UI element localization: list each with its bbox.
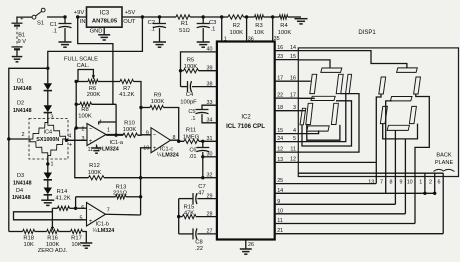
svg-text:IC3: IC3 [100, 11, 110, 17]
svg-text:5: 5 [293, 136, 296, 142]
junction dot pin31 node [201, 140, 204, 143]
wire C3 node to pin1 stub [203, 16, 222, 18]
svg-text:1MEG: 1MEG [183, 135, 200, 141]
junction dot IC1-c output [177, 140, 180, 143]
wire IC2 pin 18 to display pin 3 [275, 105, 299, 111]
svg-text:.22: .22 [195, 246, 203, 252]
svg-text:200K: 200K [87, 92, 101, 98]
wire common down [202, 157, 204, 178]
svg-text:R1: R1 [181, 21, 188, 27]
wire +9V branch down [78, 17, 113, 104]
wire IC2 pin 9 to display bottom [275, 199, 396, 205]
svg-text:7: 7 [107, 207, 110, 213]
svg-text:38: 38 [207, 81, 213, 87]
junction dot common mid [139, 176, 142, 179]
resistor R1 51ohm [176, 15, 203, 34]
junction dot backplane 1 [423, 192, 426, 195]
junction dot pin 1 stub [220, 15, 223, 18]
svg-text:.1: .1 [150, 27, 155, 33]
display DISP1 box [298, 30, 458, 177]
bridge sensor IC4 SX1000N dashed box [29, 119, 68, 160]
wire pin 40 to osc node [181, 47, 217, 71]
svg-text:−: − [88, 208, 92, 214]
svg-text:100K: 100K [78, 114, 92, 120]
svg-text:22: 22 [277, 93, 283, 99]
wire battery to switch [17, 16, 32, 19]
svg-text:8: 8 [390, 179, 393, 185]
svg-text:30: 30 [207, 152, 213, 158]
svg-text:C2: C2 [148, 20, 155, 26]
capacitor C6 .01 [189, 141, 210, 160]
svg-text:C6: C6 [189, 148, 196, 154]
svg-text:4: 4 [68, 133, 71, 139]
display bottom pin 10 riser [407, 177, 415, 224]
wire to left rail [9, 68, 48, 137]
resistor R11 1MEG [183, 128, 200, 144]
wire R6/R8 vertical [75, 82, 77, 105]
svg-text:1N4148: 1N4148 [13, 180, 32, 186]
display bottom pin 9 riser [400, 177, 406, 214]
svg-text:C7: C7 [198, 184, 205, 190]
svg-text:C4: C4 [186, 92, 194, 98]
wire IC2 pin 35 stub [273, 17, 280, 42]
resistor R8 100K [76, 102, 92, 119]
wire IC2 pin 1 stub [222, 17, 227, 43]
junction dot pin30 node [201, 155, 204, 158]
wire pin6 [76, 207, 87, 209]
svg-text:14: 14 [290, 45, 296, 51]
svg-text:DISP1: DISP1 [358, 30, 376, 36]
svg-text:40: 40 [207, 47, 213, 53]
display bottom pin 7 riser [380, 177, 386, 194]
svg-text:10: 10 [277, 208, 283, 214]
capacitor C5 .1 [188, 109, 208, 122]
svg-text:47K: 47K [184, 210, 194, 216]
svg-text:C3: C3 [209, 20, 216, 26]
svg-text:AN78L05: AN78L05 [92, 19, 118, 25]
svg-text:.1: .1 [52, 29, 57, 35]
svg-text:D4: D4 [16, 188, 23, 194]
left rail wire [8, 139, 10, 232]
svg-text:15: 15 [290, 54, 296, 60]
junction dot backplane 2 [433, 192, 436, 195]
wire R9 right down to IC1-c output [164, 108, 179, 142]
wire IC2 pin 25 to display bottom [275, 178, 376, 184]
junction dot sensor feed [46, 67, 49, 70]
display left digit segment G [311, 96, 335, 100]
svg-text:R11: R11 [186, 128, 196, 134]
op-amp IC1-b [80, 203, 115, 235]
display wire right G to bottom [386, 101, 392, 177]
display wire entry 12 bus [298, 161, 376, 163]
integrator node vertical [178, 199, 180, 234]
svg-text:B1: B1 [18, 32, 25, 38]
capacitor C8 .22 [179, 228, 217, 252]
IC1-a pin 4 power stub [99, 122, 116, 125]
svg-text:GND: GND [90, 29, 103, 35]
junction dot C3 [202, 15, 205, 18]
junction dot pin 36 stub [245, 15, 248, 18]
display half-digit segment c [300, 108, 306, 125]
svg-text:ICL 7106 CPL: ICL 7106 CPL [226, 123, 265, 130]
wire to R2 [222, 16, 228, 18]
svg-text:1: 1 [107, 128, 110, 134]
label full scale cal [64, 57, 98, 70]
wire bridge pin4 to IC1-a pin3 [66, 139, 87, 140]
svg-text:R6: R6 [89, 86, 96, 92]
svg-text:R18: R18 [23, 236, 34, 242]
wire pin 30 [203, 156, 217, 158]
svg-text:R4: R4 [280, 23, 288, 29]
op-amp IC1-c [143, 128, 178, 159]
svg-text:C8: C8 [195, 239, 202, 245]
diode D1 1N4148 [13, 68, 52, 92]
svg-text:12: 12 [277, 147, 283, 153]
svg-text:IC1-b: IC1-b [96, 221, 109, 227]
display right digit segment A [397, 68, 418, 73]
wire IC1-b output feedback [106, 213, 141, 216]
pin 32 label [207, 173, 213, 179]
display wire loop riser pin 9 [404, 139, 406, 177]
svg-text:D3: D3 [17, 173, 24, 179]
resistor R9 100K [141, 93, 164, 110]
display right digit segment B [414, 77, 421, 94]
svg-text:+: + [89, 219, 93, 225]
wire D3 to D4 [47, 180, 49, 188]
IC2 ICL7106 box [217, 42, 275, 240]
svg-text:100K: 100K [151, 99, 165, 105]
svg-text:R12: R12 [89, 163, 100, 169]
display bottom pin 13 riser [368, 177, 376, 186]
diode D3 1N4148 [13, 173, 52, 187]
junction dot IC1-a output [114, 133, 117, 136]
svg-text:9: 9 [277, 199, 280, 205]
vertical net IC1-c pin10 [141, 148, 151, 215]
capacitor C7 .47 [179, 184, 217, 204]
svg-text:100K: 100K [230, 30, 244, 36]
display backplane electrode line [298, 172, 443, 174]
ground for IC1-a pin 11 [92, 148, 102, 153]
svg-text:+5V: +5V [125, 10, 136, 16]
svg-text:9 V: 9 V [18, 39, 27, 45]
svg-text:+9V: +9V [74, 10, 85, 16]
ground for IC3 [98, 35, 110, 40]
resistor R4 100K [273, 15, 292, 36]
svg-text:R7: R7 [123, 86, 130, 92]
wire left rail to R18 [9, 231, 23, 233]
svg-text:1N4148: 1N4148 [13, 108, 32, 114]
wire IC2 pin 22 to display pin 17 [275, 92, 299, 98]
display wire right F bus [376, 94, 381, 177]
potentiometer R6 200K wiper wire [78, 70, 95, 82]
capacitor C4 100pF [180, 81, 217, 105]
svg-text:15: 15 [277, 128, 283, 134]
svg-text:.1: .1 [191, 116, 196, 122]
svg-text:28: 28 [207, 211, 213, 217]
wire R10 to IC1-c pin 9 [138, 134, 152, 136]
svg-text:23: 23 [277, 54, 283, 60]
wire IC2 pin 11 to display bottom [275, 218, 415, 224]
wire R1 to C3 node [166, 16, 176, 18]
svg-text:R15: R15 [184, 204, 195, 210]
svg-text:PLANE: PLANE [435, 160, 454, 166]
resistor R14 41.2K [52, 189, 75, 211]
ground for C2 [153, 42, 166, 47]
display right digit segment G [390, 97, 412, 101]
display wire entry 3 to left digit E [298, 110, 305, 112]
svg-text:LM324: LM324 [98, 228, 115, 234]
resistor R13 221ohm [76, 184, 141, 199]
display left digit segment D [307, 126, 329, 131]
svg-text:R2: R2 [233, 23, 240, 29]
pin 31 label [207, 136, 213, 142]
svg-text:IN: IN [80, 19, 86, 25]
svg-text:33: 33 [207, 100, 213, 106]
svg-text:1: 1 [51, 161, 54, 167]
junction dot C2 [158, 15, 161, 18]
wire switch to +9V node [47, 16, 65, 18]
svg-text:34: 34 [207, 118, 213, 124]
capacitor C1 .1 [50, 17, 72, 42]
svg-text:CAL.: CAL. [77, 63, 90, 69]
capacitor C3 .1 [197, 17, 217, 42]
svg-text:27: 27 [207, 229, 213, 235]
wire pin 32 [203, 177, 217, 179]
svg-text:9: 9 [146, 130, 149, 136]
svg-text:S1: S1 [37, 21, 44, 27]
svg-text:100K: 100K [88, 170, 102, 176]
wire IC2 pin 13 to display pin 12 [275, 157, 299, 163]
diode D2 1N4148 [13, 101, 52, 114]
ground for C1 [59, 42, 72, 47]
ground for C3 [197, 42, 210, 47]
junction dot R8 left [75, 103, 78, 106]
battery B1 9V [12, 16, 27, 57]
wire R4 to ground [288, 16, 301, 18]
wire R8 right to +9V vertical [92, 103, 117, 105]
display right digit segment D [387, 125, 409, 130]
svg-text:LM324: LM324 [162, 152, 179, 158]
svg-text:SX1000N: SX1000N [36, 137, 59, 143]
display left digit segment C [331, 103, 338, 124]
display backplane pin 2 riser [429, 173, 435, 193]
svg-text:6: 6 [438, 179, 441, 185]
wire D4 to ground [47, 195, 49, 200]
svg-text:100K: 100K [278, 30, 292, 36]
svg-text:17: 17 [277, 76, 283, 82]
wire IC2 pin 12 to display pin 11 [275, 146, 299, 152]
label BACK PLANE [434, 153, 455, 172]
display wire entry 15 to left digit A [298, 60, 330, 68]
svg-text:−: − [153, 132, 157, 138]
junction dot pin2 node [75, 126, 78, 129]
wire R13 left down to pin6 [75, 197, 77, 209]
svg-text:.01: .01 [189, 154, 197, 160]
svg-text:16: 16 [290, 75, 296, 81]
svg-text:C1: C1 [50, 22, 57, 28]
junction dot osc node [179, 69, 182, 72]
display wire right E C loop [383, 124, 418, 139]
junction dot +9V branch [76, 15, 79, 18]
svg-text:18: 18 [277, 105, 283, 111]
wire D2 to bridge pin 3 [48, 113, 54, 123]
display left digit segment A [321, 68, 342, 72]
display wire half-digit c loop [302, 101, 352, 146]
resistor R17 10K [71, 229, 83, 248]
wire IC2 pin 10 to display bottom [275, 208, 406, 214]
wire R16 to R17 [59, 231, 71, 233]
wire IC1-c output to R11 [171, 140, 185, 141]
wire R7 to R9 node [134, 82, 142, 108]
svg-text:25: 25 [277, 178, 283, 184]
wire bridge pin1 down [47, 156, 49, 173]
svg-text:ZERO ADJ.: ZERO ADJ. [38, 248, 68, 254]
wire R6 right to +9V vertical [98, 81, 113, 83]
svg-text:9: 9 [400, 179, 403, 185]
IC1-a pin 11 ground stub [96, 145, 98, 148]
bridge labels [22, 130, 73, 168]
bridge arm bottom-right [48, 139, 66, 156]
wire R8 node down to IC1-a pin2 [76, 104, 87, 128]
wire C5 to pin 34 [202, 114, 217, 124]
svg-text:11: 11 [290, 146, 296, 152]
svg-text:−: − [89, 127, 93, 133]
potentiometer R16 100K ZERO ADJ [38, 227, 68, 254]
IC3 GND pin [90, 27, 105, 34]
svg-text:10: 10 [407, 179, 413, 185]
junction dot R13 right [139, 195, 142, 198]
svg-text:10K: 10K [254, 30, 264, 36]
svg-text:+: + [69, 143, 73, 149]
junction dot pin32 node [201, 176, 204, 179]
IC2 pin 26 ground [246, 240, 254, 249]
svg-text:13: 13 [277, 157, 283, 163]
bridge arm bottom-left [30, 139, 48, 156]
wire C2 to R1 [160, 16, 167, 18]
wire +9V to IC3 IN [78, 16, 87, 18]
svg-text:R13: R13 [116, 184, 127, 190]
junction dot R9 left [139, 106, 142, 109]
junction dot R15 node [177, 215, 180, 218]
svg-text:10K: 10K [24, 242, 34, 248]
wire R17 to ground [83, 232, 87, 243]
svg-text:41.2K: 41.2K [119, 92, 134, 98]
svg-text:29: 29 [207, 193, 213, 199]
svg-text:.1: .1 [211, 27, 216, 33]
svg-text:1N4148: 1N4148 [13, 86, 32, 92]
svg-text:100K: 100K [123, 127, 137, 133]
wire IC2 pin 23 to display pin 15 [275, 54, 299, 60]
svg-text:100K: 100K [46, 242, 60, 248]
ground after R17 [80, 243, 92, 248]
display half-digit segment b [346, 74, 352, 93]
svg-text:R10: R10 [124, 121, 135, 127]
svg-text:17: 17 [290, 92, 296, 98]
wire IC2 pin 24 to display pin 5 [275, 136, 299, 142]
svg-text:3: 3 [51, 114, 54, 120]
display wire right B loop [415, 94, 429, 177]
svg-text:2: 2 [82, 126, 85, 132]
wire pin 33 to C5 [202, 100, 217, 110]
wire +5V rail segment [142, 16, 159, 18]
switch S1 [32, 8, 45, 27]
svg-text:13: 13 [368, 179, 374, 185]
svg-text:16: 16 [277, 45, 283, 51]
svg-text:R8: R8 [81, 107, 88, 113]
svg-text:R9: R9 [154, 93, 161, 99]
svg-text:.47: .47 [196, 191, 204, 197]
bridge arm top-right [48, 123, 66, 140]
display right digit segment C [409, 106, 416, 123]
svg-text:11: 11 [277, 218, 283, 224]
svg-text:100K: 100K [184, 64, 198, 70]
svg-text:21: 21 [277, 228, 283, 234]
resistor R12 100K [88, 163, 104, 180]
svg-text:IC2: IC2 [241, 115, 251, 121]
svg-text:R3: R3 [255, 23, 262, 29]
svg-text:100pF: 100pF [180, 100, 197, 106]
svg-text:3: 3 [293, 105, 296, 111]
display wire E-C loop [307, 125, 340, 140]
wire R11 to pin 31 [199, 140, 217, 142]
display bottom pin 8 riser [390, 177, 396, 205]
wire +9V jog down [115, 104, 117, 135]
capacitor C2 .1 [148, 17, 166, 42]
svg-text:R17: R17 [71, 236, 82, 242]
wire R14 left down to wiper [51, 208, 53, 228]
wire +5V down-left feed [48, 17, 143, 68]
svg-text:1N4148: 1N4148 [12, 195, 31, 201]
display backplane pin 6 riser [438, 173, 444, 234]
diode D4 1N4148 [12, 188, 52, 202]
svg-text:FULL SCALE: FULL SCALE [64, 57, 98, 63]
resistor R10 100K [106, 121, 137, 138]
svg-text:41.2K: 41.2K [55, 195, 70, 201]
wire IC2 pin 15 to display pin 4 [275, 128, 299, 134]
resistor R7 41.2K [113, 79, 135, 98]
svg-text:39: 39 [207, 66, 213, 72]
display wire right D to bottom [394, 130, 396, 176]
svg-text:+: + [89, 139, 93, 145]
svg-text:2: 2 [22, 132, 25, 138]
wire IC2 pin 16 to display pin 14 [275, 45, 299, 51]
svg-text:IC1-a: IC1-a [110, 140, 124, 146]
junction dot C1 [63, 15, 66, 18]
svg-text:221Ω: 221Ω [113, 191, 128, 197]
wire R9 node down to pin9 wire [140, 108, 142, 135]
junction dot +5V branch [141, 15, 144, 18]
junction dot R6 left [75, 80, 78, 83]
svg-text:OUT: OUT [123, 19, 136, 25]
svg-text:IC4: IC4 [44, 130, 53, 136]
svg-text:4: 4 [293, 128, 296, 134]
junction dot pin4 node [65, 139, 68, 142]
display right digit segment F [379, 77, 386, 94]
ground for B1 [12, 57, 23, 62]
wire common to R12 [104, 177, 141, 179]
wire IC1-a output [106, 134, 123, 137]
wire osc node down [180, 71, 182, 87]
resistor R3 10K [247, 15, 273, 36]
resistor R5 100K [181, 57, 217, 73]
display wire entry 4 to left digit D [298, 130, 318, 133]
display wire entry 17 to left digit G [298, 97, 315, 99]
pin 30 label [207, 152, 213, 158]
svg-text:D2: D2 [17, 101, 24, 107]
svg-text:12: 12 [290, 157, 296, 163]
svg-text:2: 2 [429, 179, 432, 185]
svg-text:32: 32 [207, 173, 213, 179]
